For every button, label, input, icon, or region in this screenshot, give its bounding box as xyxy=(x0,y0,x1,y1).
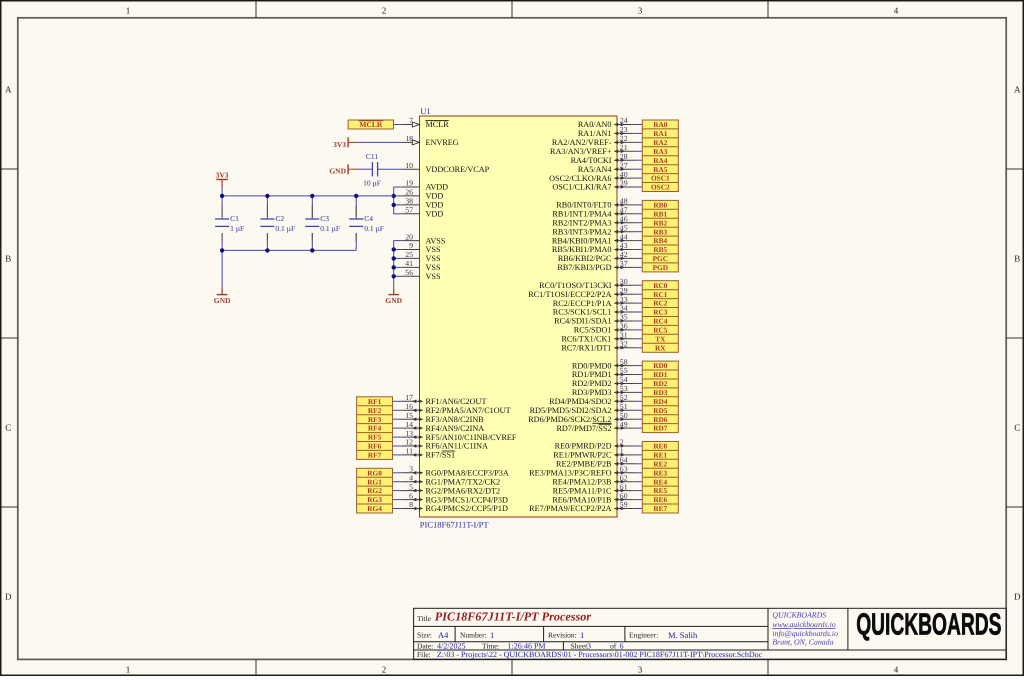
junction xyxy=(392,274,396,278)
wire xyxy=(635,222,643,224)
svg-text:RE7/PMA9/ECCP2/P2A: RE7/PMA9/ECCP2/P2A xyxy=(529,504,611,513)
wire xyxy=(635,311,643,313)
port RG1 xyxy=(367,477,382,486)
svg-text:B: B xyxy=(1014,254,1020,264)
svg-text:RA2/AN2/VREF-: RA2/AN2/VREF- xyxy=(552,138,612,147)
svg-text:8: 8 xyxy=(409,500,413,509)
svg-text:GND: GND xyxy=(214,296,231,305)
port PGD xyxy=(653,263,668,272)
svg-text:3: 3 xyxy=(587,642,591,651)
svg-text:C2: C2 xyxy=(275,214,284,223)
svg-text:RE2/PMBE/P2B: RE2/PMBE/P2B xyxy=(556,460,612,469)
svg-text:1: 1 xyxy=(126,5,131,15)
port RD0 xyxy=(653,361,668,370)
port RD2 xyxy=(653,379,668,388)
wire xyxy=(635,481,643,483)
svg-text:RC0/T1OSO/T13CKI: RC0/T1OSO/T13CKI xyxy=(539,281,612,290)
svg-text:RB5/KBI1/PMA0: RB5/KBI1/PMA0 xyxy=(552,245,612,254)
value label PIC18F67J11T-I/PT xyxy=(420,520,490,530)
svg-text:VSS: VSS xyxy=(426,272,441,281)
svg-text:15: 15 xyxy=(405,411,413,420)
ground GND (VSS) xyxy=(385,288,402,306)
wire xyxy=(635,150,643,152)
svg-text:RE2: RE2 xyxy=(653,459,667,468)
svg-text:RA5/AN4: RA5/AN4 xyxy=(578,165,612,174)
svg-text:AVDD: AVDD xyxy=(426,183,449,192)
port RF5 xyxy=(368,433,382,442)
junction xyxy=(392,203,396,207)
wire xyxy=(393,472,402,474)
port RE2 xyxy=(653,459,667,468)
svg-text:B: B xyxy=(5,254,11,264)
svg-text:19: 19 xyxy=(405,179,413,188)
svg-text:RF4/AN9/C2INA: RF4/AN9/C2INA xyxy=(426,424,485,433)
svg-text:RC4/SDI1/SDA1: RC4/SDI1/SDA1 xyxy=(554,317,611,326)
svg-text:RE7: RE7 xyxy=(653,504,667,513)
svg-text:RA3: RA3 xyxy=(653,147,668,156)
svg-text:3V3: 3V3 xyxy=(333,140,346,149)
wire xyxy=(357,141,402,143)
svg-text:3: 3 xyxy=(638,665,643,675)
svg-text:RF3: RF3 xyxy=(368,415,382,424)
svg-text:RE3: RE3 xyxy=(653,468,667,477)
svg-text:4: 4 xyxy=(894,5,899,15)
wire xyxy=(393,481,402,483)
port PGC xyxy=(653,254,668,263)
svg-text:41: 41 xyxy=(405,259,413,268)
port RA2 xyxy=(653,138,668,147)
port RC3 xyxy=(653,308,668,317)
svg-text:RC3: RC3 xyxy=(653,308,668,317)
svg-text:QUICKBOARDS: QUICKBOARDS xyxy=(856,607,1001,641)
svg-text:Number:: Number: xyxy=(460,631,487,640)
port RA1 xyxy=(653,129,668,138)
title block xyxy=(414,608,1007,659)
port group RC0..RX xyxy=(642,281,678,353)
wire xyxy=(635,240,643,242)
port group RB0..PGD xyxy=(642,200,678,272)
pin 19 AVDD (left) xyxy=(402,179,448,192)
wire xyxy=(635,418,643,420)
svg-text:RD7/PMD7/SS2: RD7/PMD7/SS2 xyxy=(556,424,611,433)
svg-text:38: 38 xyxy=(405,197,413,206)
capacitor C2 0.1 µF xyxy=(260,196,295,251)
svg-text:GND: GND xyxy=(329,167,346,176)
wire xyxy=(635,141,643,143)
port RC0 xyxy=(653,281,668,290)
svg-text:RA1/AN1: RA1/AN1 xyxy=(578,129,612,138)
svg-text:RD1: RD1 xyxy=(653,370,668,379)
svg-text:PIC18F67J11T-I/PT Processor: PIC18F67J11T-I/PT Processor xyxy=(435,610,592,624)
svg-text:1: 1 xyxy=(580,630,584,640)
svg-text:RF6: RF6 xyxy=(368,442,382,451)
svg-text:ENVREG: ENVREG xyxy=(426,138,459,147)
wire xyxy=(221,250,223,287)
svg-text:RF7/SS1: RF7/SS1 xyxy=(426,451,456,460)
port RD7 xyxy=(653,424,668,433)
svg-text:RE0: RE0 xyxy=(653,442,667,451)
wire xyxy=(635,329,643,331)
designator U1 xyxy=(420,106,430,116)
svg-text:RF5/AN10/C1INB/CVREF: RF5/AN10/C1INB/CVREF xyxy=(426,433,517,442)
wire xyxy=(635,472,643,474)
svg-text:RB2: RB2 xyxy=(653,218,667,227)
svg-text:RX: RX xyxy=(655,343,666,352)
pin 41 VSS (left) xyxy=(402,259,441,272)
svg-text:Z:\03 - Projects\22 - QUICKBOA: Z:\03 - Projects\22 - QUICKBOARDS\01 - P… xyxy=(437,650,763,659)
port group RE0..RE7 xyxy=(642,442,678,514)
port RB3 xyxy=(653,227,667,236)
svg-text:11: 11 xyxy=(405,447,413,456)
date/sheet row xyxy=(417,642,624,651)
wire xyxy=(635,266,643,268)
port OSC2 xyxy=(651,183,670,192)
svg-text:RF2/PMA5/AN7/C1OUT: RF2/PMA5/AN7/C1OUT xyxy=(426,406,511,415)
svg-text:RA0/AN0: RA0/AN0 xyxy=(578,120,612,129)
svg-text:RA3/AN3/VREF+: RA3/AN3/VREF+ xyxy=(550,147,612,156)
pin 3 RG0/PMA8/ECCP3/P3A (left) xyxy=(402,465,509,478)
svg-text:RA0: RA0 xyxy=(653,120,668,129)
port RG0 xyxy=(367,468,382,477)
svg-text:RD6/PMD6/SCK2/SCL2: RD6/PMD6/SCK2/SCL2 xyxy=(528,415,611,424)
wire xyxy=(221,187,223,196)
svg-text:RE4: RE4 xyxy=(653,477,667,486)
pin 8 RG4/PMCS2/CCP5/P1D (left) xyxy=(402,500,508,513)
svg-text:Revision:: Revision: xyxy=(548,631,577,640)
svg-text:info@quickboards.io: info@quickboards.io xyxy=(772,629,838,638)
power port 3V3 (cap bank) xyxy=(216,171,229,188)
svg-text:RB7/KBI3/PGD: RB7/KBI3/PGD xyxy=(557,263,611,272)
svg-text:C4: C4 xyxy=(364,214,373,223)
svg-text:1: 1 xyxy=(490,630,494,640)
pin 18 ENVREG (left) xyxy=(402,134,459,147)
svg-text:5: 5 xyxy=(409,482,413,491)
svg-text:14: 14 xyxy=(405,420,413,429)
svg-text:Brant, ON, Canada: Brant, ON, Canada xyxy=(772,638,833,647)
wire VDD bus vertical xyxy=(394,187,402,214)
op-amp U1 IC body PIC18F67J11T-I/PT xyxy=(420,116,618,517)
svg-text:RG3/PMCS1/CCP4/P3D: RG3/PMCS1/CCP4/P3D xyxy=(426,495,508,504)
svg-text:VSS: VSS xyxy=(426,245,441,254)
wire xyxy=(635,374,643,376)
svg-text:Size:: Size: xyxy=(417,631,432,640)
svg-text:VSS: VSS xyxy=(426,254,441,263)
port RA4 xyxy=(653,156,668,165)
port RF3 xyxy=(368,415,382,424)
svg-text:C: C xyxy=(5,423,11,433)
wire xyxy=(635,249,643,251)
svg-text:VDD: VDD xyxy=(426,192,444,201)
pin 15 RF3/AN8/C2INB (left) xyxy=(402,411,485,424)
title text xyxy=(417,610,591,624)
port RG4 xyxy=(367,504,382,513)
svg-text:RB6/KBI2/PGC: RB6/KBI2/PGC xyxy=(558,254,612,263)
svg-text:RA4/T0CKI: RA4/T0CKI xyxy=(571,156,612,165)
wire xyxy=(393,409,402,411)
port RC4 xyxy=(653,317,668,326)
wire xyxy=(635,427,643,429)
svg-text:RC1/T1OSI/ECCP2/P2A: RC1/T1OSI/ECCP2/P2A xyxy=(528,290,611,299)
svg-text:RB0/INT0/FLT0: RB0/INT0/FLT0 xyxy=(556,201,611,210)
svg-text:C: C xyxy=(1014,423,1020,433)
svg-text:20: 20 xyxy=(405,232,413,241)
svg-text:PGD: PGD xyxy=(653,263,668,272)
svg-text:A: A xyxy=(5,85,12,95)
wire xyxy=(635,159,643,161)
port RD1 xyxy=(653,370,668,379)
pin 25 VSS (left) xyxy=(402,250,441,263)
port MCLR xyxy=(348,120,393,129)
svg-text:RB4/KBI0/PMA1: RB4/KBI0/PMA1 xyxy=(552,236,612,245)
svg-text:RF3/AN8/C2INB: RF3/AN8/C2INB xyxy=(426,415,485,424)
svg-text:RB4: RB4 xyxy=(653,236,667,245)
wire xyxy=(635,490,643,492)
svg-text:26: 26 xyxy=(405,188,413,197)
svg-text:RF7: RF7 xyxy=(368,451,382,460)
svg-text:RG1/PMA7/TX2/CK2: RG1/PMA7/TX2/CK2 xyxy=(426,477,501,486)
svg-text:RB5: RB5 xyxy=(653,245,667,254)
port TX xyxy=(655,334,666,343)
svg-text:RG0/PMA8/ECCP3/P3A: RG0/PMA8/ECCP3/P3A xyxy=(426,469,509,478)
port RE1 xyxy=(653,451,667,460)
wire VSS bus vertical xyxy=(394,241,402,288)
svg-text:RB3: RB3 xyxy=(653,227,667,236)
svg-text:MCLR: MCLR xyxy=(426,120,450,129)
svg-text:RG3: RG3 xyxy=(367,495,382,504)
wire xyxy=(635,383,643,385)
wire xyxy=(378,168,402,170)
port group RD0..RD7 xyxy=(642,361,678,433)
wire xyxy=(635,508,643,510)
svg-text:1 µF: 1 µF xyxy=(230,224,244,233)
svg-text:RD5: RD5 xyxy=(653,406,668,415)
svg-text:RE0/PMRD/P2D: RE0/PMRD/P2D xyxy=(555,442,612,451)
wire xyxy=(635,231,643,233)
port RD3 xyxy=(653,388,668,397)
wire xyxy=(635,347,643,349)
size/number/revision/engineer row xyxy=(417,630,698,640)
port RA3 xyxy=(653,147,668,156)
pin 4 RG1/PMA7/TX2/CK2 (left) xyxy=(402,473,500,486)
port RE0 xyxy=(653,442,667,451)
pin 16 RF2/PMA5/AN7/C1OUT (left) xyxy=(402,402,511,415)
svg-text:VDD: VDD xyxy=(426,210,444,219)
pin 38 VDD (left) xyxy=(402,197,444,210)
svg-text:3: 3 xyxy=(409,465,413,474)
wire xyxy=(357,168,372,170)
pin 6 RG3/PMCS1/CCP4/P3D (left) xyxy=(402,491,508,504)
svg-text:RD3/PMD3: RD3/PMD3 xyxy=(572,388,612,397)
port RB4 xyxy=(653,236,667,245)
svg-text:56: 56 xyxy=(405,268,413,277)
wire xyxy=(635,293,643,295)
svg-text:OSC2: OSC2 xyxy=(651,183,670,192)
svg-text:RC4: RC4 xyxy=(653,317,668,326)
svg-text:RG4: RG4 xyxy=(367,504,382,513)
svg-text:RD2: RD2 xyxy=(653,379,668,388)
svg-text:U1: U1 xyxy=(420,106,430,116)
svg-text:VSS: VSS xyxy=(426,263,441,272)
svg-text:RD0: RD0 xyxy=(653,361,668,370)
port RB5 xyxy=(653,245,667,254)
wire xyxy=(393,490,402,492)
svg-text:0.1 µF: 0.1 µF xyxy=(320,224,340,233)
svg-text:AVSS: AVSS xyxy=(426,236,446,245)
svg-text:RG4/PMCS2/CCP5/P1D: RG4/PMCS2/CCP5/P1D xyxy=(426,504,508,513)
svg-text:2: 2 xyxy=(382,665,387,675)
junction xyxy=(392,265,396,269)
port RX xyxy=(655,343,666,352)
wire xyxy=(635,454,643,456)
svg-text:OSC2/CLKO/RA6: OSC2/CLKO/RA6 xyxy=(549,174,611,183)
svg-text:1: 1 xyxy=(126,665,131,675)
svg-text:9: 9 xyxy=(409,241,413,250)
svg-text:Title: Title xyxy=(417,614,432,623)
svg-text:PIC18F67J11T-I/PT: PIC18F67J11T-I/PT xyxy=(420,520,490,530)
svg-text:17: 17 xyxy=(405,393,413,402)
wire xyxy=(635,132,643,134)
wire xyxy=(393,445,402,447)
svg-text:RC5/SDO1: RC5/SDO1 xyxy=(574,326,612,335)
port RA5 xyxy=(653,165,668,174)
wire xyxy=(393,454,402,456)
svg-text:RD5/PMD5/SDI2/SDA2: RD5/PMD5/SDI2/SDA2 xyxy=(530,406,612,415)
port RF6 xyxy=(368,442,382,451)
svg-text:4: 4 xyxy=(409,473,413,482)
svg-text:A4: A4 xyxy=(438,630,449,640)
svg-text:PGC: PGC xyxy=(653,254,668,263)
wire xyxy=(393,499,402,501)
port RE6 xyxy=(653,495,667,504)
wire xyxy=(635,284,643,286)
svg-text:Date:: Date: xyxy=(417,642,433,651)
svg-text:RF1/AN6/C2OUT: RF1/AN6/C2OUT xyxy=(426,397,487,406)
svg-text:10: 10 xyxy=(405,161,413,170)
svg-text:RD6: RD6 xyxy=(653,415,668,424)
svg-text:RD7: RD7 xyxy=(653,424,668,433)
junction xyxy=(265,194,269,198)
pin 57 VDD (left) xyxy=(402,206,444,219)
svg-text:6: 6 xyxy=(409,491,413,500)
svg-text:RD4: RD4 xyxy=(653,397,668,406)
svg-text:16: 16 xyxy=(405,402,413,411)
port RB0 xyxy=(653,201,667,210)
svg-text:RE5: RE5 xyxy=(653,486,667,495)
pin 12 RF6/AN11/C1INA (left) xyxy=(402,438,488,451)
svg-text:RG2: RG2 xyxy=(367,486,382,495)
wire xyxy=(635,177,643,179)
port RF1 xyxy=(368,397,382,406)
wire GND rail xyxy=(222,249,356,251)
wire xyxy=(635,365,643,367)
svg-text:VDDCORE/VCAP: VDDCORE/VCAP xyxy=(426,165,490,174)
wire xyxy=(635,338,643,340)
svg-text:C3: C3 xyxy=(320,214,329,223)
port RD5 xyxy=(653,406,668,415)
svg-text:RD4/PMD4/SDO2: RD4/PMD4/SDO2 xyxy=(549,397,611,406)
junction xyxy=(392,194,396,198)
svg-text:RC1: RC1 xyxy=(653,290,668,299)
wire xyxy=(393,427,402,429)
port group RA0..OSC2 xyxy=(642,120,678,192)
port RB2 xyxy=(653,218,667,227)
wire xyxy=(635,124,643,126)
junction xyxy=(392,256,396,260)
ground GND (cap bank) xyxy=(214,288,231,306)
svg-text:RG1: RG1 xyxy=(367,477,382,486)
svg-text:Engineer:: Engineer: xyxy=(629,631,658,640)
pin 10 VDDCORE/VCAP (left) xyxy=(402,161,490,174)
svg-text:RB1: RB1 xyxy=(653,209,667,218)
svg-text:A: A xyxy=(1014,85,1021,95)
svg-text:RF2: RF2 xyxy=(368,406,382,415)
svg-text:RE5/PMA11/P1C: RE5/PMA11/P1C xyxy=(553,486,612,495)
svg-text:RD0/PMD0: RD0/PMD0 xyxy=(572,361,612,370)
port RF2 xyxy=(368,406,382,415)
port RF7 xyxy=(368,451,382,460)
svg-text:12: 12 xyxy=(405,438,413,447)
junction xyxy=(220,248,224,252)
capacitor C3 0.1 µF xyxy=(305,196,340,251)
wire xyxy=(393,436,402,438)
wire xyxy=(635,213,643,215)
svg-text:RC7/RX1/DT1: RC7/RX1/DT1 xyxy=(561,344,611,353)
wire xyxy=(635,400,643,402)
wire xyxy=(393,418,402,420)
svg-text:RA2: RA2 xyxy=(653,138,668,147)
port RC5 xyxy=(653,326,668,335)
svg-text:6: 6 xyxy=(620,642,624,651)
svg-text:Sheet: Sheet xyxy=(571,642,589,651)
quickboards info xyxy=(772,611,838,647)
svg-text:C1: C1 xyxy=(230,214,239,223)
svg-text:Time:: Time: xyxy=(482,642,500,651)
svg-text:D: D xyxy=(5,592,12,602)
capacitor C4 0.1 µF xyxy=(349,196,384,251)
svg-text:MCLR: MCLR xyxy=(359,120,382,129)
port RE4 xyxy=(653,477,667,486)
junction xyxy=(354,194,358,198)
svg-text:RD3: RD3 xyxy=(653,388,668,397)
pin 13 RF5/AN10/C1INB/CVREF (left) xyxy=(402,429,517,442)
svg-text:D: D xyxy=(1014,592,1021,602)
pin 56 VSS (left) xyxy=(402,268,441,281)
pin 9 VSS (left) xyxy=(402,241,441,254)
pin 7 MCLR (left) xyxy=(402,116,450,129)
svg-text:RC0: RC0 xyxy=(653,281,668,290)
wire xyxy=(635,320,643,322)
svg-text:4/2/2025: 4/2/2025 xyxy=(437,642,465,651)
wire xyxy=(635,257,643,259)
wire xyxy=(635,391,643,393)
wire xyxy=(393,508,402,510)
svg-text:3: 3 xyxy=(638,5,643,15)
wire xyxy=(635,186,643,188)
svg-text:RE3/PMA13/P3C/REFO: RE3/PMA13/P3C/REFO xyxy=(529,469,611,478)
file row xyxy=(417,650,763,659)
port RE3 xyxy=(653,468,667,477)
svg-text:57: 57 xyxy=(405,206,413,215)
wire xyxy=(635,168,643,170)
port RG3 xyxy=(367,495,382,504)
wire xyxy=(635,463,643,465)
svg-text:QUICKBOARDS: QUICKBOARDS xyxy=(772,611,826,620)
svg-text:RG2/PMA6/RX2/DT2: RG2/PMA6/RX2/DT2 xyxy=(426,486,501,495)
svg-text:RF5: RF5 xyxy=(368,433,382,442)
wire xyxy=(394,124,402,126)
svg-text:M. Salih: M. Salih xyxy=(668,630,698,640)
pin 14 RF4/AN9/C2INA (left) xyxy=(402,420,485,433)
